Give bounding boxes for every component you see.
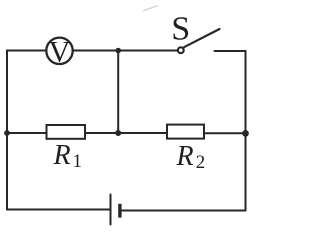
svg-text:R: R: [176, 141, 194, 172]
svg-text:2: 2: [196, 152, 206, 173]
svg-text:R: R: [53, 140, 71, 171]
svg-text:1: 1: [73, 151, 83, 172]
svg-text:S: S: [171, 10, 190, 47]
svg-text:V: V: [49, 36, 71, 69]
